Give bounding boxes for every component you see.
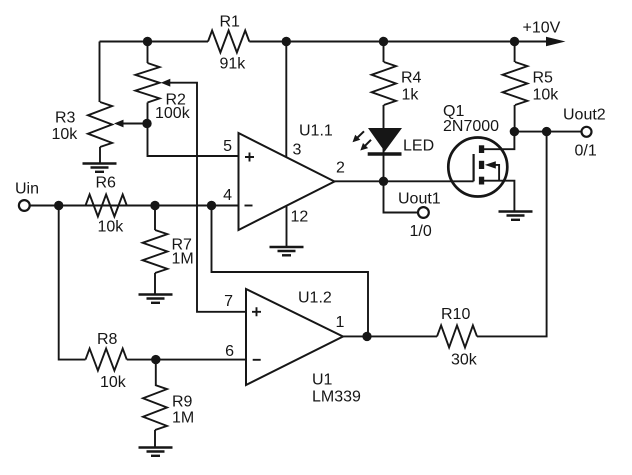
svg-text:R9: R9	[172, 394, 193, 411]
wire: R2 top lead	[147, 42, 149, 64]
node: feedback junction on pin 4 wire	[207, 201, 216, 210]
svg-text:4: 4	[223, 187, 232, 204]
terminal Uout1	[418, 207, 429, 218]
wire: R2 bottom lead to pin 5	[148, 103, 239, 157]
resistor R1	[208, 31, 249, 53]
ground Q1 source	[499, 210, 533, 212]
svg-text:12: 12	[291, 208, 309, 225]
wire: U1.2 out to R10	[343, 335, 437, 337]
R3 wiper arrow	[114, 120, 124, 128]
node: U1.2 output junction	[362, 332, 371, 341]
Q1 source wire	[482, 181, 515, 212]
ground under R9	[139, 446, 173, 448]
resistor R10	[437, 325, 477, 347]
pin 3 lead	[285, 42, 287, 157]
wire: right drop to R10	[477, 132, 547, 337]
resistor R7	[143, 230, 168, 273]
svg-text:100k: 100k	[155, 105, 191, 122]
potentiometer R3	[88, 102, 112, 147]
node: R5/drain junction	[510, 127, 519, 136]
node: R7 top junction	[150, 201, 159, 210]
svg-text:R8: R8	[97, 331, 118, 348]
potentiometer R2	[135, 63, 159, 103]
svg-text:R6: R6	[96, 175, 117, 192]
node: Uin junction	[54, 201, 63, 210]
node: rail junction R5	[510, 37, 519, 46]
resistor R9	[143, 385, 167, 430]
svg-text:10k: 10k	[533, 87, 560, 104]
svg-text:+10V: +10V	[523, 20, 561, 37]
svg-text:10k: 10k	[98, 219, 125, 236]
node: rail junction R4	[379, 37, 388, 46]
terminal Uin	[19, 200, 30, 211]
svg-text:6: 6	[225, 343, 234, 360]
resistor R8	[86, 349, 127, 371]
node: rail junction pin3	[282, 37, 291, 46]
svg-text:10k: 10k	[52, 126, 79, 143]
wire: R2 wiper to pin 7	[169, 83, 246, 312]
svg-text:10k: 10k	[100, 374, 127, 391]
svg-text:1/0: 1/0	[410, 223, 432, 240]
wire: R7 leads	[154, 206, 156, 295]
svg-text:U1.1: U1.1	[299, 122, 333, 139]
svg-text:3: 3	[293, 141, 302, 158]
svg-text:R10: R10	[441, 306, 470, 323]
wire: left drop Uin to R8	[59, 206, 86, 360]
svg-text:1: 1	[336, 314, 345, 331]
wire: to Uout1	[384, 181, 418, 212]
wire: feedback pin4 to U1.2 out	[212, 206, 369, 337]
node: R9 junction	[151, 355, 160, 364]
svg-text:R5: R5	[533, 70, 554, 87]
resistor R4	[383, 42, 385, 63]
wire: U1.1 output row to gate	[335, 180, 474, 182]
svg-text:5: 5	[223, 138, 232, 155]
ground under R7	[139, 293, 173, 295]
svg-text:U1.2: U1.2	[298, 289, 332, 306]
svg-text:30k: 30k	[451, 351, 478, 368]
node: U1.1 output junction	[379, 177, 388, 186]
op-amp U1.1	[239, 133, 335, 230]
node: rail junction R2	[143, 37, 152, 46]
svg-text:R4: R4	[401, 70, 422, 87]
op-amp U1.2	[246, 289, 343, 385]
svg-text:7: 7	[224, 293, 233, 310]
Q1 channel segments	[479, 145, 484, 153]
svg-text:R3: R3	[55, 109, 76, 126]
svg-text:1M: 1M	[172, 410, 194, 427]
LED light arrows	[357, 131, 365, 138]
wire: top +10V rail	[100, 41, 548, 43]
svg-text:R1: R1	[220, 13, 241, 30]
svg-text:Uout1: Uout1	[398, 191, 441, 208]
svg-text:U1: U1	[312, 372, 333, 389]
wire: rail corner down to R3	[99, 42, 101, 103]
resistor R5	[514, 42, 516, 63]
svg-text:LED: LED	[403, 137, 434, 154]
svg-text:LM339: LM339	[312, 389, 361, 406]
svg-text:0/1: 0/1	[575, 142, 597, 159]
svg-text:Uin: Uin	[15, 181, 39, 198]
wire: Uin to pin 4	[30, 205, 239, 207]
svg-text:2: 2	[336, 160, 345, 177]
svg-text:91k: 91k	[220, 56, 247, 73]
node: R2 bottom / R3 wiper junction	[142, 119, 151, 128]
ground under R3	[83, 162, 117, 164]
svg-text:1k: 1k	[402, 87, 420, 104]
terminal Uout2	[582, 127, 592, 137]
wire: R9 leads	[154, 360, 157, 448]
pin 12 lead	[286, 205, 288, 247]
resistor R6	[86, 195, 127, 217]
R2 wiper arrow	[161, 79, 171, 87]
node: Uout2 branch junction	[542, 127, 551, 136]
svg-text:2N7000: 2N7000	[443, 118, 499, 135]
svg-text:Uout2: Uout2	[563, 106, 606, 123]
svg-text:1M: 1M	[172, 250, 194, 267]
LED D1	[368, 128, 402, 152]
Q1 gate bar	[473, 154, 475, 181]
Q1 body arrow	[485, 161, 496, 168]
Q1 drain wire	[482, 132, 515, 150]
ground pin 12	[270, 246, 304, 248]
wire: Uout2 row	[514, 131, 581, 133]
wire: R8 to pin 6	[127, 359, 246, 361]
power arrow +10V	[546, 37, 566, 47]
